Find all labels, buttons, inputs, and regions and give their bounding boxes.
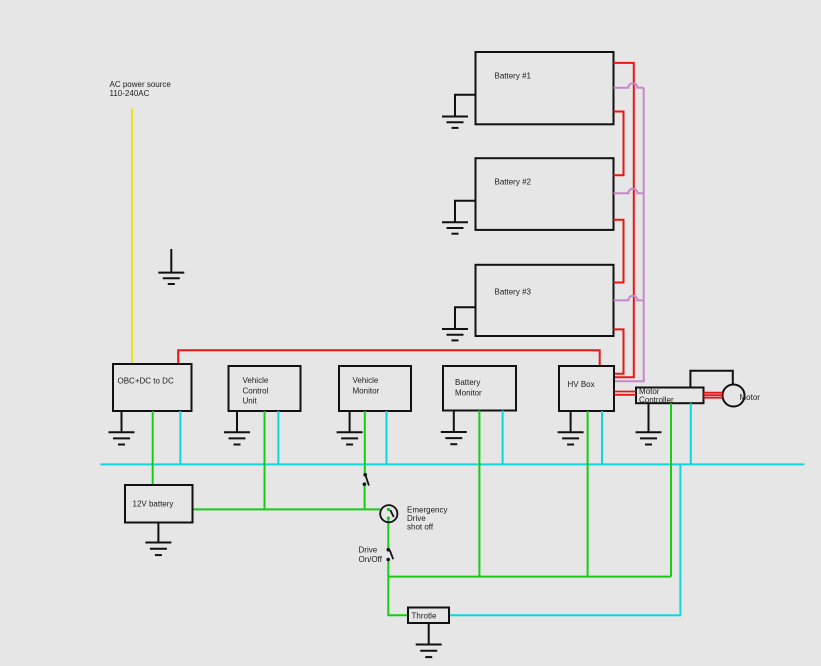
svg-text:Controller: Controller [639, 395, 674, 404]
wire green 12V OBC to battery [152, 411, 154, 485]
wire cyan OBC drop [179, 411, 181, 464]
box U1 OBC+DC to DC [113, 364, 192, 411]
svg-text:Control: Control [243, 386, 269, 395]
svg-text:12V battery: 12V battery [133, 499, 174, 508]
wire Battery #1 chassis lead [455, 95, 476, 117]
wire pink BMS bus down to HV Box [615, 88, 644, 382]
ground Motor Controller [636, 403, 662, 444]
wire AC yellow feed to OBC [131, 109, 133, 365]
wire red 3-phase Motor Controller to Motor [704, 393, 723, 398]
wire red double HV Box to Motor Controller [615, 392, 637, 395]
wire cyan Vehicle Monitor drop [386, 411, 388, 464]
wire Battery #3 chassis lead [455, 307, 476, 329]
svg-text:shot off: shot off [407, 523, 434, 532]
wire cyan CAN bus (horizontal) [101, 463, 805, 465]
svg-text:Motor: Motor [740, 393, 761, 402]
wire red series link Battery #1 to Battery #2 [614, 112, 624, 176]
ground Battery #2 [442, 222, 468, 233]
ground Vehicle Monitor [337, 411, 363, 445]
svg-text:Battery #2: Battery #2 [495, 177, 532, 186]
wire pink BMS link Battery #3 (hop over red) [614, 296, 644, 301]
svg-text:Drive: Drive [359, 546, 378, 555]
wire green Battery Monitor drop [478, 411, 480, 577]
svg-text:Battery #3: Battery #3 [495, 288, 532, 297]
box U5 HV Box [559, 366, 614, 411]
box U2 Vehicle Control Unit [229, 366, 301, 411]
svg-text:Emergency: Emergency [407, 505, 447, 514]
wire cyan VCU drop [277, 411, 279, 464]
switch S1 interlock (Vehicle Monitor line) [363, 473, 369, 486]
svg-text:Battery #1: Battery #1 [495, 71, 532, 80]
ground earth symbol (floating, top left) [158, 249, 184, 284]
wire green 12V rail horizontal [193, 508, 381, 510]
net label Emergency Drive shot off [407, 505, 447, 531]
motor M1 [723, 385, 761, 407]
net label AC power source 110-240AC [110, 80, 172, 98]
ground HV Box [558, 411, 584, 445]
svg-text:110-240AC: 110-240AC [110, 89, 150, 98]
wire green Motor Controller drop [670, 403, 672, 576]
svg-text:Drive: Drive [407, 514, 426, 523]
wire cyan Battery Monitor drop [502, 411, 504, 465]
battery B2 box Battery #2 [476, 158, 614, 230]
wire green VCU drop [264, 411, 266, 509]
wire HV+ red: Battery #1 top to HV Box right [614, 63, 634, 377]
battery B3 box Battery #3 [476, 265, 614, 336]
svg-text:Battery: Battery [455, 378, 480, 387]
svg-text:HV Box: HV Box [568, 380, 595, 389]
ground Throttle [416, 623, 442, 657]
battery B1 box Battery #1 [476, 52, 614, 124]
svg-text:Vehicle: Vehicle [353, 376, 379, 385]
svg-text:Vehicle: Vehicle [243, 376, 269, 385]
ground Battery #3 [442, 329, 468, 340]
svg-text:On/Off: On/Off [359, 555, 383, 564]
wire pink BMS link Battery #1 (hop over red) [614, 83, 644, 88]
wire Battery #2 chassis lead [455, 201, 476, 223]
ground 12V battery [145, 523, 171, 556]
ground Vehicle Control Unit [224, 411, 250, 445]
svg-text:Monitor: Monitor [455, 388, 482, 397]
wire red DC link OBC to HV Box [178, 350, 600, 366]
svg-text:OBC+DC to DC: OBC+DC to DC [118, 377, 174, 386]
wire pink BMS link Battery #2 (hop over red) [614, 189, 644, 194]
wire green emergency to drive switch [387, 518, 389, 550]
box U3 Vehicle Monitor [339, 366, 411, 411]
box U6 Motor Controller [636, 387, 704, 405]
ground OBC [109, 411, 135, 445]
svg-text:Monitor: Monitor [353, 386, 380, 395]
ground Battery #1 [442, 117, 468, 128]
wire green switch to 12V rail [364, 485, 366, 510]
wire cyan Throttle to CAN bus [449, 464, 680, 615]
battery BT1 12V battery box [125, 485, 193, 523]
net label Drive On/Off [359, 546, 383, 565]
wire green lower rail horizontal [388, 576, 671, 578]
wire green Vehicle Monitor drop to switch [364, 411, 366, 474]
wire green drive switch to Throttle [388, 560, 408, 616]
box U4 Battery Monitor [443, 366, 516, 411]
wire black encoder loop Motor Controller to Motor [690, 371, 732, 388]
switch S3 Drive On/Off [386, 548, 393, 561]
wire red Battery #3 bottom to HV Box right [614, 329, 624, 373]
box U7 Throttle [408, 608, 449, 624]
wire green HV Box drop [587, 411, 589, 577]
svg-text:Throtle: Throtle [412, 611, 437, 620]
wire red series link Battery #2 to Battery #3 [614, 220, 624, 283]
ground Battery Monitor [441, 411, 467, 445]
switch S2 Emergency Drive shot off (mushroom button) [380, 505, 397, 522]
svg-text:Unit: Unit [243, 397, 258, 406]
wire cyan Motor Controller drop [690, 403, 692, 464]
svg-text:AC power source: AC power source [110, 80, 172, 89]
wire cyan HV Box drop [601, 411, 603, 464]
